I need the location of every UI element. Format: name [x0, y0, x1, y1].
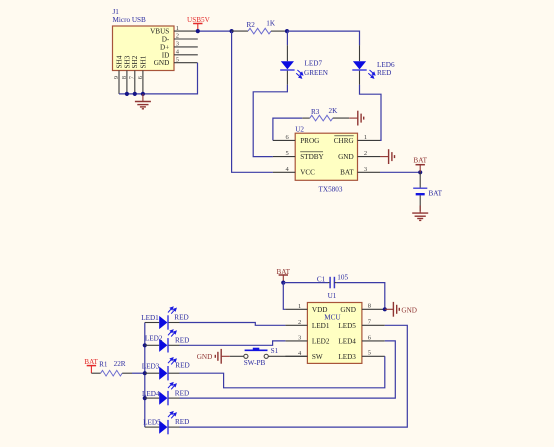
ground at U2 pin 2 [380, 149, 395, 164]
U1 pin 2 LED1 [285, 319, 307, 326]
wire R2 to LED6 [287, 31, 360, 45]
svg-text:2K: 2K [329, 107, 339, 115]
J1 pin 6 SH1 [137, 71, 144, 94]
svg-text:LED3: LED3 [142, 363, 160, 371]
U2 pin 6 PROG [273, 134, 295, 141]
connector J1 Micro USB body [113, 8, 175, 70]
U2 pin 2 GND [358, 150, 381, 157]
U2 pin 1 CHRG [358, 134, 381, 141]
IC U2 TX5803 body [295, 126, 357, 194]
svg-text:7: 7 [368, 319, 372, 326]
svg-text:ID: ID [162, 51, 170, 59]
svg-text:2: 2 [298, 319, 301, 326]
svg-text:2: 2 [176, 33, 179, 40]
U2 pin 4 VCC [273, 166, 295, 173]
svg-text:Micro USB: Micro USB [113, 16, 147, 24]
svg-text:GND: GND [401, 306, 417, 314]
wire LED5 to U1 pin7 [180, 325, 408, 427]
svg-text:LED1: LED1 [312, 322, 330, 330]
junction R2/LED7/LED6 [285, 29, 289, 33]
ground GND at U1 pin 8 [385, 302, 417, 317]
U2 pin 3 BAT [358, 166, 381, 173]
J1 pin 9 SH4 [113, 71, 120, 94]
svg-text:PROG: PROG [300, 137, 319, 145]
wire LED7 to U2 STDBY [253, 85, 287, 157]
power port BAT bottom left [84, 358, 98, 373]
svg-text:R3: R3 [311, 108, 320, 116]
wire C1 to GND node [337, 283, 385, 310]
svg-text:RED: RED [175, 390, 189, 398]
svg-text:BAT: BAT [277, 268, 291, 276]
svg-text:SH1: SH1 [139, 55, 147, 68]
power port BAT right [413, 156, 427, 172]
junction SH1 [141, 92, 145, 96]
junction U1 GND [383, 307, 387, 311]
svg-text:LED4: LED4 [338, 337, 356, 345]
wire J1 shield bus [119, 63, 198, 94]
wire USB5V to U2 VCC [232, 31, 273, 172]
LED4 RED [142, 383, 189, 406]
svg-text:5: 5 [176, 56, 179, 63]
svg-text:GND: GND [340, 306, 356, 314]
wire R1 to LED bus [132, 372, 145, 374]
J1 pin 5 GND [174, 56, 198, 63]
svg-text:R2: R2 [247, 21, 256, 29]
wire PROG to R3 [273, 118, 302, 140]
svg-text:8: 8 [368, 303, 371, 310]
LED6 RED [352, 45, 395, 85]
svg-text:SH2: SH2 [131, 55, 139, 68]
wire LED3 to U1 pin5 [180, 356, 385, 388]
wire VBUS to R2 [198, 30, 232, 32]
junction SH3 [125, 92, 129, 96]
wire U2 BAT to battery [380, 171, 420, 173]
ground at J1 [135, 94, 151, 109]
svg-text:LED3: LED3 [338, 353, 356, 361]
wire LED2 to U1 pin3 [180, 341, 286, 345]
svg-text:LED5: LED5 [338, 322, 356, 330]
wire BAT to C1 [283, 282, 328, 284]
svg-text:5: 5 [368, 350, 371, 357]
U1 pin 5 LED3 [362, 350, 385, 357]
J1 pin 1 VBUS [174, 25, 198, 32]
U1 pin 4 SW [285, 350, 307, 357]
wire BAT down to U1 VDD [283, 283, 285, 310]
power port GND at switch [197, 349, 230, 364]
svg-text:BAT: BAT [340, 169, 354, 177]
wire LED anode bus [144, 323, 146, 428]
svg-text:MCU: MCU [324, 313, 341, 321]
svg-text:RED: RED [175, 418, 189, 426]
battery BAT [413, 172, 442, 211]
svg-text:BAT: BAT [413, 156, 427, 164]
svg-text:D+: D+ [160, 43, 169, 51]
J1 pin 7 SH2 [129, 71, 136, 94]
U1 pin 8 GND [362, 303, 385, 310]
svg-text:SH3: SH3 [123, 55, 131, 68]
U1 pin 6 LED4 [362, 334, 385, 341]
svg-text:3: 3 [298, 334, 301, 341]
svg-text:SH4: SH4 [115, 55, 123, 68]
LED5 RED [143, 412, 189, 435]
svg-text:GND: GND [154, 59, 170, 67]
svg-text:1: 1 [364, 134, 367, 141]
wire R2 junction down to LED7 [286, 31, 288, 45]
J1 pin 4 ID [174, 49, 198, 56]
svg-text:RED: RED [175, 361, 189, 369]
svg-text:LED2: LED2 [312, 337, 330, 345]
svg-text:R1: R1 [99, 360, 108, 368]
junction at USB5V [196, 29, 200, 33]
svg-text:3: 3 [176, 41, 179, 48]
svg-text:3: 3 [364, 166, 367, 173]
J1 pin 2 D- [174, 33, 198, 40]
svg-text:2: 2 [364, 150, 367, 157]
svg-text:SW-PB: SW-PB [244, 359, 266, 367]
junction VBUS/R2/VCC [230, 29, 234, 33]
svg-text:BAT: BAT [429, 190, 443, 198]
svg-text:LED7: LED7 [305, 60, 323, 68]
U2 pin 5 STDBY [273, 150, 295, 157]
svg-text:8: 8 [121, 76, 128, 79]
LED2 RED [145, 330, 190, 353]
svg-text:1: 1 [176, 25, 179, 32]
resistor R1 22R [91, 360, 132, 376]
U1 pin 1 VDD [285, 303, 307, 310]
svg-text:CHRG: CHRG [334, 137, 354, 145]
resistor R3 2K [302, 107, 349, 121]
svg-text:S1: S1 [271, 347, 279, 355]
svg-text:BAT: BAT [84, 358, 98, 366]
U1 pin 7 LED5 [362, 319, 385, 326]
svg-text:D-: D- [162, 36, 170, 44]
junction SH2 [133, 92, 137, 96]
svg-text:TX5803: TX5803 [319, 186, 343, 194]
svg-text:USB5V: USB5V [187, 16, 211, 24]
LED3 RED [142, 358, 190, 381]
svg-text:VDD: VDD [312, 306, 328, 314]
svg-text:GND: GND [197, 353, 213, 361]
power port USB5V [187, 16, 211, 31]
svg-text:1K: 1K [266, 20, 276, 28]
svg-text:STDBY: STDBY [300, 153, 324, 161]
svg-text:VCC: VCC [300, 169, 315, 177]
svg-text:5: 5 [285, 150, 288, 157]
svg-text:GND: GND [338, 153, 354, 161]
svg-text:C1: C1 [317, 276, 326, 284]
svg-text:6: 6 [368, 334, 372, 341]
power port BAT top [277, 268, 291, 283]
svg-text:22R: 22R [114, 360, 126, 368]
resistor R2 1K [232, 20, 287, 34]
svg-text:U2: U2 [295, 126, 304, 134]
svg-text:LED2: LED2 [145, 334, 163, 342]
U1 pin 3 LED2 [285, 334, 307, 341]
junction bus LED3 [143, 371, 147, 375]
ground below battery [412, 206, 428, 221]
svg-text:VBUS: VBUS [150, 28, 169, 36]
svg-text:U1: U1 [328, 292, 337, 300]
ground after R3 [349, 111, 364, 126]
svg-text:RED: RED [174, 314, 188, 322]
svg-text:LED4: LED4 [142, 390, 160, 398]
IC U1 MCU body [307, 292, 362, 363]
junction BAT/C1/VDD [281, 281, 285, 285]
svg-text:RED: RED [175, 337, 189, 345]
svg-text:RED: RED [377, 69, 391, 77]
junction bus LED2 [143, 343, 147, 347]
svg-text:GREEN: GREEN [304, 69, 329, 77]
svg-text:LED6: LED6 [377, 61, 395, 69]
wire LED1 to U1 pin2 [180, 323, 286, 326]
LED7 GREEN [280, 45, 329, 85]
wire LED4 to U1 pin6 [180, 341, 396, 398]
J1 pin 3 D+ [174, 41, 198, 48]
switch S1 SW-PB [230, 347, 308, 367]
J1 pin 8 SH3 [121, 71, 128, 94]
svg-text:9: 9 [113, 76, 120, 79]
svg-text:LED5: LED5 [143, 419, 161, 427]
svg-text:LED1: LED1 [141, 314, 159, 322]
wire LED6 to U2 CHRG [360, 85, 382, 141]
LED1 RED [141, 307, 188, 330]
svg-text:1: 1 [298, 303, 301, 310]
junction bus LED4 [143, 396, 147, 400]
capacitor C1 105 [317, 273, 349, 288]
svg-text:SW: SW [312, 353, 323, 361]
junction BAT node [418, 170, 422, 174]
svg-text:105: 105 [337, 273, 348, 281]
